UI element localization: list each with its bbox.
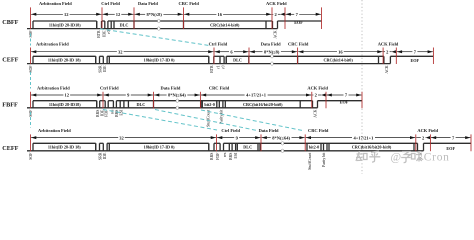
svg-text:StuffCount: StuffCount [308,152,312,170]
svg-text:Parity bit: Parity bit [219,109,223,124]
verticals at field/box boundaries [32,56,34,63]
svg-text:RRS: RRS [96,110,100,117]
svg-text:bit2-0: bit2-0 [309,145,319,150]
svg-text:8*N(≤64): 8*N(≤64) [168,93,186,98]
svg-text:DLC: DLC [233,58,242,63]
svg-text:18bit(ID 17-ID 0): 18bit(ID 17-ID 0) [144,145,176,150]
red dimension boundary lines [30,48,32,65]
watermark zhihu @yuweiCron [356,151,380,162]
svg-text:ACK Field: ACK Field [307,86,328,91]
svg-text:8*N(≤8): 8*N(≤8) [264,49,280,54]
svg-text:CRC Field: CRC Field [179,1,200,6]
svg-text:IDE: IDE [103,65,107,72]
svg-text:16: 16 [218,12,223,17]
svg-text:18bit(ID 17-ID 0): 18bit(ID 17-ID 0) [144,58,176,63]
row CBFF top line segments [33,20,97,22]
svg-text:Data Field: Data Field [138,1,158,6]
cyan connector: data field row3-row4 [155,110,256,131]
svg-text:SOF: SOF [29,65,33,73]
row CEFF baseline [27,63,390,65]
svg-text:SRR: SRR [98,152,102,160]
row CEFF baseline [27,150,424,152]
svg-text:Ctrl Field: Ctrl Field [221,128,240,133]
svg-text:Ctrl Field: Ctrl Field [209,41,228,46]
svg-text:Arbitration Field: Arbitration Field [38,128,71,133]
svg-text:CRC(bit16/bit20-bit0): CRC(bit16/bit20-bit0) [243,102,283,107]
svg-text:11bit(ID 28-ID18): 11bit(ID 28-ID18) [49,102,81,107]
svg-text:Parity bit: Parity bit [322,152,326,167]
verticals at field/box boundaries [32,101,34,108]
svg-text:4+17/21+1: 4+17/21+1 [246,93,267,98]
svg-text:RTR: RTR [97,30,101,38]
dimension arrows [31,94,63,96]
svg-text:r0: r0 [221,65,225,68]
variable-length break mark [281,142,284,146]
row FBFF baseline [27,107,318,109]
svg-text:EOF: EOF [340,99,349,104]
svg-text:SOF: SOF [29,152,33,160]
red dimension boundary lines [30,7,32,29]
svg-text:32: 32 [119,135,124,140]
page divider dotted line [361,0,363,174]
svg-text:Data Field: Data Field [259,128,279,133]
svg-text:bit2-0: bit2-0 [204,102,214,107]
svg-text:r1: r1 [217,65,221,68]
svg-text:12: 12 [116,12,121,17]
variable-length break mark [158,19,161,23]
dimension arrows [31,51,117,53]
svg-text:FDF: FDF [216,152,220,160]
single-bit dip slots [96,101,98,108]
svg-text:RRS: RRS [210,153,214,160]
svg-text:DLC: DLC [120,22,129,27]
cyan connector: ctrl field row1-row2 [100,29,211,46]
svg-text:DLC: DLC [243,145,252,150]
svg-text:IDE: IDE [103,152,107,159]
svg-text:CRC(bit14-bit0): CRC(bit14-bit0) [210,22,240,27]
svg-text:Arbitration Field: Arbitration Field [36,41,69,46]
dimension arrows [31,13,63,15]
svg-text:CRC(bit16/bit20-bit0): CRC(bit16/bit20-bit0) [352,145,392,150]
svg-text:8*N(≤64): 8*N(≤64) [272,135,290,140]
svg-text:CRC(bit14-bit0): CRC(bit14-bit0) [323,58,353,63]
svg-text:SRR: SRR [98,65,102,73]
svg-text:SOF: SOF [29,30,33,38]
svg-text:ACK Field: ACK Field [378,41,399,46]
svg-text:12: 12 [65,93,70,98]
variable-length break mark [271,55,274,59]
svg-text:Ctrl Field: Ctrl Field [100,86,119,91]
svg-text:@: @ [391,151,402,163]
svg-text:IDE: IDE [103,30,107,37]
svg-text:BRS: BRS [229,153,233,160]
row FBFF top line segments [33,100,97,102]
svg-text:11bit(ID 28-ID 18): 11bit(ID 28-ID 18) [48,145,81,150]
svg-text:ACK Field: ACK Field [417,128,438,133]
verticals at field/box boundaries [32,143,34,151]
svg-text:CEFF: CEFF [2,56,18,63]
svg-text:ACK: ACK [385,65,389,73]
svg-text:RTR: RTR [210,65,214,73]
svg-text:CRC Field: CRC Field [308,128,329,133]
svg-text:EOF: EOF [294,20,303,25]
svg-text:CRC Field: CRC Field [288,41,309,46]
single-bit dip slots [95,56,97,63]
svg-text:ACK: ACK [314,109,318,117]
svg-text:8*N(≤8): 8*N(≤8) [146,12,162,17]
svg-text:EOF: EOF [410,58,419,63]
svg-text:Data Field: Data Field [161,86,181,91]
single-bit dip slots [95,143,97,151]
svg-text:11bit(ID 28-ID 18): 11bit(ID 28-ID 18) [48,58,81,63]
svg-text:FBFF: FBFF [2,102,18,109]
svg-text:ACK: ACK [274,30,278,38]
dimension arrows [31,137,118,139]
svg-text:ACK Field: ACK Field [266,1,287,6]
svg-text:DLC: DLC [136,102,145,107]
cyan connector: SOF vertical row2-row3 [30,72,32,89]
svg-text:4+17/21+1: 4+17/21+1 [354,135,375,140]
row CEFF top line segments [33,142,96,144]
svg-text:Cron: Cron [424,151,450,163]
row CBFF baseline [27,28,278,30]
variable-length break mark [176,99,179,103]
verticals at field/box boundaries [32,21,34,29]
svg-text:SOF: SOF [29,109,33,117]
red dimension boundary lines [30,92,32,108]
svg-text:CRC Field: CRC Field [209,86,230,91]
svg-text:16: 16 [338,49,343,54]
cyan connector: SOF vertical row1-row2 [30,34,32,46]
svg-text:res: res [223,152,227,157]
cyan connector: SOF vertical row3-row4 [30,112,32,128]
svg-text:CBFF: CBFF [2,19,18,26]
row CEFF top line segments [33,55,96,57]
red dimension boundary lines [30,134,32,151]
cyan connector: ctrl field row3-row4 [103,110,217,131]
svg-text:ESI: ESI [234,152,238,159]
svg-text:Data Field: Data Field [261,41,281,46]
svg-text:CEFF: CEFF [2,145,18,152]
cyan connector: crc field row3-row4 [201,110,303,131]
svg-text:12: 12 [64,12,69,17]
svg-text:11bit(ID 28-ID18): 11bit(ID 28-ID18) [49,22,81,27]
svg-text:Arbitration Field: Arbitration Field [39,1,72,6]
svg-text:Ctrl Field: Ctrl Field [101,1,120,6]
single-bit dip slots [96,21,98,29]
svg-text:32: 32 [118,49,123,54]
svg-text:Arbitration Field: Arbitration Field [37,86,70,91]
